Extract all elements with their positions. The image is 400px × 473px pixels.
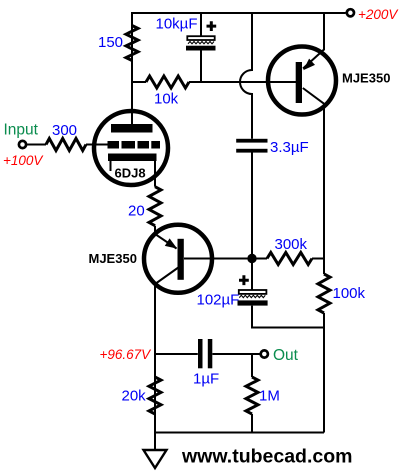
svg-text:+96.67V: +96.67V bbox=[100, 347, 153, 362]
wire top rail bbox=[132, 13, 346, 61]
svg-text:www.tubecad.com: www.tubecad.com bbox=[181, 446, 352, 468]
svg-text:MJE350: MJE350 bbox=[89, 251, 137, 266]
capacitor C3 102uF polarized bbox=[238, 290, 268, 306]
triode cathode bar bbox=[108, 154, 157, 162]
transistor Q2 emitter arrow bbox=[165, 238, 177, 248]
triode U1 6DJ8 envelope bbox=[94, 111, 168, 185]
node C junction dot bbox=[247, 254, 256, 263]
transistor Q1 emitter arrow bbox=[303, 59, 315, 71]
wire plate lead into tube bbox=[131, 82, 133, 126]
capacitor C2 3.3uF bbox=[236, 139, 267, 153]
wire 1uF to Out terminal bbox=[212, 353, 259, 355]
svg-text:100k: 100k bbox=[333, 285, 366, 302]
wire right column 100k to bottom rail bbox=[323, 313, 325, 433]
wire 3.3uF bottom lead to node C bbox=[251, 153, 253, 255]
wire 1M bottom lead bbox=[251, 414, 253, 433]
wire 10kuF bottom lead bbox=[200, 51, 202, 83]
ground bbox=[144, 450, 167, 468]
transistor Q2 MJE350 envelope bbox=[144, 225, 212, 293]
wire Q1 collector lead bbox=[303, 88, 326, 105]
capacitor C1 10kuF polarized bbox=[186, 36, 216, 50]
svg-text:20k: 20k bbox=[122, 388, 147, 405]
wire Q2 collector lead bbox=[156, 267, 179, 284]
resistor 10k bbox=[146, 76, 189, 88]
svg-text:10k: 10k bbox=[154, 91, 179, 108]
wire 300 to grid bbox=[86, 144, 108, 146]
input terminal bbox=[19, 141, 26, 148]
wire 1M top lead bbox=[251, 354, 253, 377]
wire node B to Q1 base bbox=[189, 81, 296, 83]
svg-text:Input: Input bbox=[4, 122, 39, 139]
resistor 300k bbox=[267, 253, 312, 265]
wire Q2 collector down to ground bbox=[154, 282, 156, 450]
svg-text:1M: 1M bbox=[259, 388, 280, 405]
svg-text:1µF: 1µF bbox=[193, 371, 219, 388]
svg-text:6DJ8: 6DJ8 bbox=[115, 166, 146, 181]
svg-text:20: 20 bbox=[128, 203, 145, 220]
resistor 1M bbox=[246, 377, 258, 414]
svg-text:102µF: 102µF bbox=[197, 292, 240, 309]
wire bottom rail bbox=[155, 432, 324, 434]
svg-text:150: 150 bbox=[98, 34, 123, 51]
Out terminal bbox=[261, 350, 268, 357]
wire Q1 emitter lead bbox=[303, 13, 324, 69]
resistor 300 bbox=[46, 139, 86, 151]
wire 3.3uF top lead with hop over base wire bbox=[240, 13, 252, 139]
wire out node bbox=[155, 353, 198, 355]
transistor Q2 base bar bbox=[178, 239, 184, 280]
plus sign C3 bbox=[239, 275, 249, 285]
transistor Q1 base bar bbox=[296, 62, 302, 103]
+200V terminal bbox=[347, 9, 354, 16]
triode plate bar bbox=[111, 124, 153, 133]
capacitor C4 1uF bbox=[198, 339, 212, 368]
svg-text:+200V: +200V bbox=[358, 7, 399, 22]
svg-text:300: 300 bbox=[52, 122, 77, 139]
svg-text:Out: Out bbox=[273, 347, 299, 364]
wire 102uF bottom lead to column bbox=[252, 306, 323, 328]
transistor Q1 MJE350 envelope bbox=[268, 47, 336, 115]
wire 10kuF top lead bbox=[200, 13, 202, 36]
wire 20 to Q2 emitter bbox=[155, 226, 177, 249]
wire node C to 300k bbox=[252, 258, 267, 260]
svg-text:300k: 300k bbox=[275, 236, 308, 253]
svg-text:3.3µF: 3.3µF bbox=[270, 139, 309, 156]
resistor 20k bbox=[149, 377, 161, 414]
svg-text:10kµF: 10kµF bbox=[156, 16, 198, 33]
wire 300k right to column bbox=[312, 258, 324, 260]
wire 102uF top lead bbox=[251, 262, 253, 290]
wire 150 bottom lead to node B bbox=[132, 61, 146, 83]
resistor 150 bbox=[126, 26, 138, 61]
wire input terminal to 300 bbox=[27, 144, 46, 146]
wire cathode lead to 20 bbox=[154, 161, 156, 187]
resistor 20 bbox=[149, 187, 161, 226]
triode grid dashes bbox=[108, 141, 161, 149]
plus sign C1 bbox=[207, 21, 217, 31]
resistor 100k bbox=[318, 274, 330, 313]
wire cathode stub left bbox=[110, 161, 112, 172]
wire Q1 collector down right column bbox=[323, 103, 325, 274]
svg-text:+100V: +100V bbox=[3, 153, 44, 168]
wire Q2 base to node C bbox=[184, 258, 252, 260]
svg-text:MJE350: MJE350 bbox=[342, 71, 390, 86]
